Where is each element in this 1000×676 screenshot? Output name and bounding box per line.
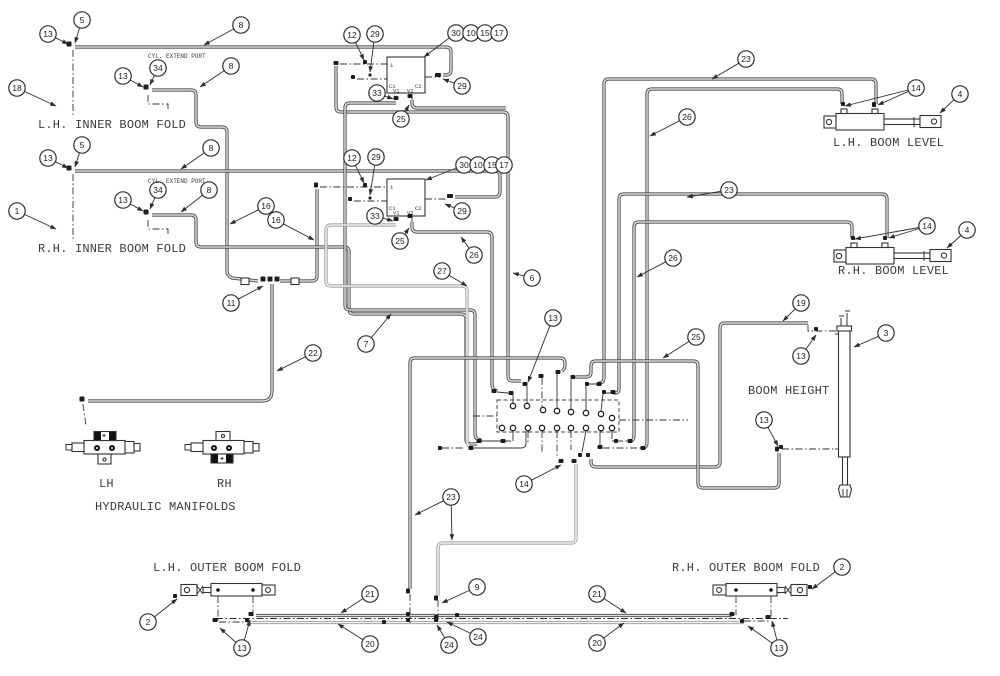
wire hose 8 R.H. inner fold short hose / hose to plate (152, 215, 477, 444)
svg-text:30: 30 (451, 28, 461, 38)
bulkhead plate (dashed) (497, 400, 619, 432)
svg-text:33: 33 (370, 211, 380, 221)
svg-text:14: 14 (922, 221, 932, 231)
balloon 14 callout (516, 465, 561, 492)
svg-text:C2: C2 (415, 205, 422, 212)
balloon 26 callout (461, 237, 482, 263)
svg-text:10: 10 (473, 160, 483, 170)
cylinder: R.H. outer boom fold (713, 584, 807, 597)
svg-text:25: 25 (395, 236, 405, 246)
balloon 10 callout (470, 157, 486, 173)
balloon 12 callout (344, 150, 364, 183)
balloon 13 callout (756, 412, 778, 446)
node R.H. inner fold cylinder centerline (72, 174, 74, 240)
svg-text:33: 33 (372, 88, 382, 98)
tube 11 / hose 22 to LH manifold (88, 284, 272, 401)
node plate bottom stubs (474, 431, 614, 452)
svg-text:24: 24 (444, 640, 454, 650)
svg-text:BOOM HEIGHT: BOOM HEIGHT (748, 384, 829, 398)
balloon 13 callout (528, 310, 561, 382)
balloon 6 callout (513, 270, 540, 286)
balloon 24 callout (447, 622, 486, 645)
bulkhead plate port circles (499, 403, 614, 430)
svg-text:5: 5 (80, 15, 85, 25)
svg-text:2: 2 (146, 617, 151, 627)
svg-text:13: 13 (237, 643, 247, 653)
wire hose 23 L.H. boom level (599, 79, 876, 383)
balloon 15 callout (477, 25, 493, 41)
balloon 17 callout (491, 25, 507, 41)
balloon 18 callout (9, 80, 56, 106)
balloon 20 callout (589, 623, 624, 651)
balloon 13 callout (40, 26, 68, 44)
balloon 13 callout (220, 620, 250, 656)
svg-text:26: 26 (668, 253, 678, 263)
svg-text:HYDRAULIC MANIFOLDS: HYDRAULIC MANIFOLDS (95, 500, 236, 514)
svg-text:22: 22 (308, 348, 318, 358)
balloon 7 callout (358, 314, 391, 352)
svg-text:23: 23 (724, 185, 734, 195)
svg-text:R.H. OUTER BOOM FOLD: R.H. OUTER BOOM FOLD (672, 561, 820, 575)
balloon 14 callout (855, 218, 935, 239)
svg-text:CYL. EXTEND PORT: CYL. EXTEND PORT (148, 53, 206, 60)
svg-text:8: 8 (239, 20, 244, 30)
svg-text:20: 20 (592, 638, 602, 648)
svg-text:8: 8 (207, 185, 212, 195)
balloon 1 callout (9, 203, 56, 229)
node L.H. inner fold extend-port bracket (148, 95, 168, 111)
balloon 20 callout (338, 624, 378, 652)
balloon 23 callout (687, 182, 737, 198)
balloon 34 callout (150, 182, 166, 209)
svg-text:13: 13 (43, 29, 53, 39)
wire hose 8 L.H. inner fold short hose (152, 90, 258, 281)
svg-text:23: 23 (446, 492, 456, 502)
wire hose valve1 V1 to plate (345, 103, 482, 440)
balloon 14 callout (845, 80, 924, 106)
svg-text:10: 10 (466, 28, 476, 38)
svg-text:13: 13 (548, 313, 558, 323)
balloon 12 callout (344, 27, 364, 60)
balloon 23 callout (712, 51, 754, 79)
svg-text:2: 2 (840, 562, 845, 572)
manifold RH (185, 432, 259, 464)
svg-text:8: 8 (229, 61, 234, 71)
svg-text:7: 7 (364, 339, 369, 349)
wire hose 25 plate to boom height bottom (576, 361, 779, 488)
wire hose 21 plate to bottom junction (410, 358, 565, 589)
node L.H. outer fold port dash-dots (218, 596, 253, 622)
svg-text:6: 6 (530, 273, 535, 283)
svg-text:13: 13 (118, 195, 128, 205)
svg-text:8: 8 (209, 143, 214, 153)
wire hose 27 valve2 V1 to plate (light) (326, 225, 472, 448)
balloon 2 callout (812, 559, 850, 589)
balloon 13 callout (115, 68, 143, 87)
balloon 8 callout (204, 17, 249, 45)
manifold LH (66, 432, 140, 465)
balloon 8 callout (200, 58, 239, 87)
balloon 5 callout (74, 12, 90, 43)
svg-text:L.H. OUTER BOOM FOLD: L.H. OUTER BOOM FOLD (153, 561, 301, 575)
svg-text:L.H. BOOM LEVEL: L.H. BOOM LEVEL (833, 136, 944, 150)
node tee 11 end caps (241, 278, 249, 285)
cylinder: L.H. outer boom fold (181, 584, 275, 597)
svg-text:34: 34 (153, 63, 163, 73)
svg-text:25: 25 (691, 332, 701, 342)
hose fittings (connector blobs) (67, 42, 888, 625)
svg-text:16: 16 (261, 201, 271, 211)
balloon 15 callout (484, 157, 500, 173)
balloon 26 callout (650, 109, 695, 136)
svg-text:C2: C2 (415, 83, 422, 90)
svg-text:19: 19 (796, 298, 806, 308)
svg-text:14: 14 (519, 479, 529, 489)
balloon 22 callout (277, 345, 321, 371)
wire hose 26 valve2 V2 to plate (412, 222, 497, 391)
svg-text:30: 30 (459, 160, 469, 170)
balloon 33 callout (369, 85, 393, 101)
balloon 13 callout (115, 192, 143, 211)
balloon 9 callout (442, 579, 485, 603)
node valve2 port dash-dot lines (320, 187, 448, 222)
svg-text:3: 3 (884, 328, 889, 338)
node boom height port dash-dots (782, 325, 837, 449)
svg-text:27: 27 (437, 266, 447, 276)
svg-text:RH: RH (217, 477, 232, 491)
svg-text:L.H. INNER BOOM FOLD: L.H. INNER BOOM FOLD (38, 118, 186, 132)
node L.H. inner fold cylinder centerline (72, 50, 74, 115)
svg-text:16: 16 (271, 215, 281, 225)
node plate top stubs (thin lines) (497, 374, 611, 411)
balloon 21 callout (589, 586, 626, 613)
balloon 2 callout (140, 599, 177, 630)
svg-text:9: 9 (475, 582, 480, 592)
balloon 29 callout (368, 149, 384, 195)
node bottom junction dash-dots (216, 594, 788, 623)
svg-text:12: 12 (347, 153, 357, 163)
valve U2 (R.H. solenoid valve block) (387, 179, 425, 216)
svg-text:V2: V2 (407, 88, 414, 95)
wire hose valve1 V2 branch (412, 100, 506, 108)
wire hose 8 R.H. inner boom fold main (75, 171, 500, 197)
balloon 25 callout (663, 329, 704, 358)
balloon 29 callout (443, 78, 470, 94)
svg-text:20: 20 (365, 639, 375, 649)
wire hose 20 bottom long run (light) (250, 621, 744, 624)
valve U1 (L.H. solenoid valve block) (387, 57, 425, 93)
balloon 16 callout (268, 212, 314, 240)
balloon 13 callout (748, 621, 787, 656)
balloon 17 callout (496, 157, 512, 173)
svg-text:29: 29 (457, 206, 467, 216)
svg-text:1: 1 (15, 206, 20, 216)
svg-text:CYL. EXTEND PORT: CYL. EXTEND PORT (148, 178, 206, 185)
balloon 21 callout (341, 586, 378, 613)
balloon 25 callout (392, 228, 409, 249)
wire hose 16 tee to valve 2 port 1 (280, 189, 317, 281)
svg-text:12: 12 (347, 30, 357, 40)
svg-text:V1: V1 (393, 88, 400, 95)
wire hose 8 L.H. inner boom fold main (cyl extend port) (75, 47, 451, 75)
svg-text:15: 15 (480, 28, 490, 38)
svg-text:13: 13 (774, 643, 784, 653)
svg-text:13: 13 (118, 71, 128, 81)
svg-text:21: 21 (365, 589, 375, 599)
balloon 29 callout (367, 26, 383, 72)
svg-text:29: 29 (371, 152, 381, 162)
svg-text:25: 25 (396, 114, 406, 124)
svg-text:26: 26 (469, 250, 479, 260)
balloon 30 callout (426, 157, 472, 180)
balloon 25 callout (393, 105, 409, 127)
svg-text:5: 5 (80, 140, 85, 150)
svg-text:21: 21 (592, 589, 602, 599)
node valve1 port dash-dot lines (340, 64, 440, 100)
wire hose 20 plate to bottom junction (light) (438, 464, 576, 596)
balloon 33 callout (367, 208, 393, 224)
balloon 29 callout (445, 203, 470, 219)
svg-text:LH: LH (99, 477, 114, 491)
balloon 3 callout (854, 325, 894, 347)
svg-text:V1: V1 (393, 210, 400, 217)
svg-text:24: 24 (473, 632, 483, 642)
balloon 34 callout (150, 60, 166, 85)
balloon 10 callout (463, 25, 479, 41)
wire hose 23 R.H. boom level (613, 194, 887, 393)
balloon 26 callout (637, 250, 681, 277)
svg-text:13: 13 (759, 415, 769, 425)
svg-text:14: 14 (911, 83, 921, 93)
svg-text:R.H. BOOM LEVEL: R.H. BOOM LEVEL (838, 264, 949, 278)
svg-text:18: 18 (12, 83, 22, 93)
svg-text:23: 23 (741, 54, 751, 64)
svg-text:11: 11 (227, 298, 236, 308)
svg-text:26: 26 (682, 112, 692, 122)
svg-text:13: 13 (796, 351, 806, 361)
svg-text:R.H. INNER BOOM FOLD: R.H. INNER BOOM FOLD (38, 242, 186, 256)
wire hose 26 L.H. boom level (642, 89, 842, 448)
cylinder: R.H. boom level (834, 243, 951, 264)
svg-text:17: 17 (494, 28, 504, 38)
svg-text:17: 17 (499, 160, 509, 170)
node hose22 to LH manifold dash-dot (83, 404, 86, 426)
svg-text:29: 29 (457, 81, 467, 91)
wire hose valve1 port 1 supply (hose 6) (336, 66, 521, 381)
balloon 30 callout (424, 25, 464, 57)
balloon 4 callout (940, 86, 968, 113)
balloon 23 callout (415, 489, 459, 540)
wire hose 21 bottom long run (256, 614, 732, 617)
balloon 16 callout (230, 198, 274, 224)
balloon 11 callout (223, 286, 263, 311)
cylinder: boom height (vertical) (835, 311, 852, 497)
svg-text:34: 34 (153, 185, 163, 195)
balloon 13 callout (40, 150, 68, 168)
balloon 19 callout (783, 295, 809, 321)
balloon 4 callout (947, 222, 975, 248)
wire hose 19 plate to boom height top (591, 323, 808, 467)
balloon 8 callout (181, 182, 217, 212)
balloon 13 callout (793, 335, 816, 364)
balloon 24 callout (437, 625, 457, 653)
balloon 5 callout (74, 137, 90, 167)
node R.H. inner fold extend-port bracket (148, 220, 168, 236)
svg-text:4: 4 (965, 225, 970, 235)
svg-text:13: 13 (43, 153, 53, 163)
balloon 8 callout (181, 140, 219, 169)
svg-text:29: 29 (370, 29, 380, 39)
svg-text:4: 4 (958, 89, 963, 99)
cylinder: L.H. boom level (824, 109, 941, 130)
node R.H. outer fold port dash-dots (736, 596, 771, 621)
balloon 27 callout (434, 263, 467, 286)
wire hose 26 R.H. boom level (628, 222, 852, 441)
